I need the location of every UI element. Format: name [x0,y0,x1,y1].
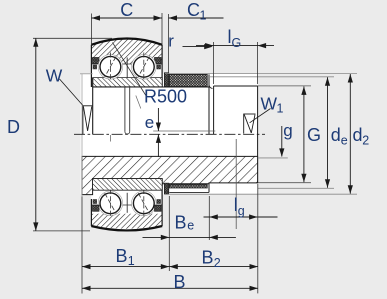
bushing left face [92,78,94,135]
dimension de [327,77,329,188]
svg-text:G: G [307,125,321,145]
svg-text:g: g [283,121,292,140]
label W1 + leader [250,109,271,123]
svg-text:1: 1 [128,254,135,268]
svg-text:1: 1 [200,9,207,23]
seal upper inner right [155,58,162,64]
svg-text:D: D [7,117,20,137]
dimension B [82,287,258,289]
svg-text:e: e [145,113,154,132]
outer ring left face [90,45,92,87]
svg-text:d: d [331,125,341,145]
cage line lower [126,193,128,213]
seal upper inner right lip [157,65,161,69]
leader r [183,46,205,48]
dimension Be [168,196,170,271]
dimension lg [208,196,210,240]
funnel W1 (right) [243,114,245,134]
contact line extension [136,96,141,109]
thread top [214,85,258,87]
thread start line lower [213,156,215,183]
stud upper surface [93,86,209,88]
svg-text:W: W [261,94,278,114]
outer ring lower section [91,214,162,229]
collar left face extension [81,74,83,197]
dimensions B1 and B2 [81,197,83,294]
dimension d2 [349,74,351,194]
seal lower inner right lip [157,200,161,204]
seal lower left [93,205,100,211]
ball contact lines [105,53,150,218]
label R500 + leader [113,43,147,97]
svg-text:C: C [187,0,200,20]
svg-text:r: r [168,32,174,51]
seal lower left lip [93,200,97,204]
ball upper right [132,55,157,80]
svg-text:R500: R500 [144,87,187,107]
seal lower right [164,183,168,194]
dimension lG [213,42,215,84]
dimension C1 [168,14,170,73]
eccentric collar lower section [169,184,207,188]
svg-text:2: 2 [214,256,221,270]
thread top extension [258,85,311,87]
outer ring upper section [91,39,162,65]
svg-text:d: d [353,125,363,145]
extension line de top [207,76,334,78]
thread bottom extension [258,182,311,184]
collar lower bottom edge [169,191,209,193]
fillet r [209,85,212,88]
g surface line [258,157,288,159]
seal upper right [164,73,168,87]
svg-text:2: 2 [362,134,369,148]
outer ring right face [161,45,163,87]
outer ring lower left face [90,199,92,226]
collar lower left face [81,156,83,194]
svg-text:B: B [202,248,214,268]
eccentric collar upper section [169,74,207,86]
thread start line upper [213,86,215,135]
svg-text:g: g [238,204,245,218]
dimension C [91,14,93,45]
svg-text:W: W [46,66,63,86]
seal upper left [93,58,100,64]
svg-text:G: G [232,36,242,50]
svg-text:B: B [116,246,128,266]
svg-text:e: e [187,219,194,233]
stud lower section block [82,156,258,194]
collar right face lower [208,156,210,192]
dimension G [303,86,305,182]
roller silhouette [91,39,162,231]
svg-text:B: B [175,213,187,233]
main axis centreline [74,133,265,135]
dimension g [281,126,283,157]
extension line d2 top [165,73,357,75]
collar right face upper [208,74,210,134]
svg-text:e: e [341,134,348,148]
bushing lower strip [93,179,163,191]
bushing upper strip [93,78,163,87]
ball lower right [132,191,157,216]
ball lower left [98,191,123,216]
funnel W (left) [82,106,84,134]
svg-text:C: C [120,0,133,20]
extension line d2 bottom [169,193,357,195]
radial lubrication hole [124,87,126,132]
label W + leader [60,79,83,106]
ball upper left [98,55,123,80]
extension line de bottom [258,187,334,189]
seal upper left lip [93,65,97,69]
stud end face [257,86,259,183]
seal lower inner right [155,205,162,211]
collar left top edge [80,73,93,75]
svg-text:1: 1 [277,102,284,116]
dimension D [33,37,112,39]
svg-text:B: B [174,272,186,292]
dimension e [157,108,159,131]
eccentric axis line [153,130,215,132]
outer ring lower right face [161,183,163,226]
white drawing cavity [81,74,258,195]
cage line upper [126,58,128,78]
